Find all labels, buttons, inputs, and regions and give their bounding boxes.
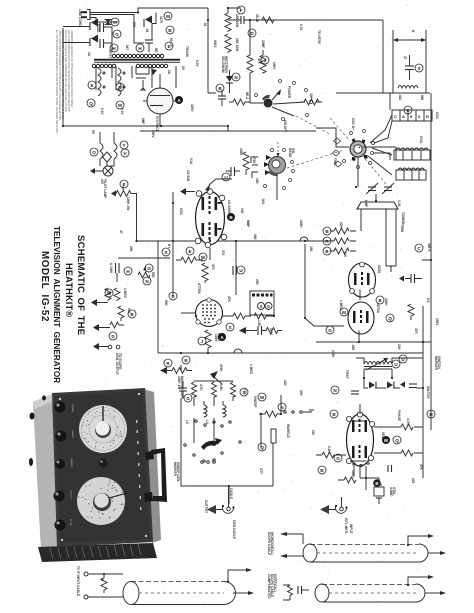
svg-text:450V: 450V — [151, 130, 155, 138]
svg-text:CABLE: CABLE — [229, 488, 233, 499]
node H — [111, 18, 119, 26]
diode D2 — [91, 35, 98, 43]
svg-text:POWER: POWER — [287, 86, 291, 99]
node G — [184, 394, 192, 402]
svg-text:G: G — [336, 456, 340, 461]
filter choke + resistor under transformer — [136, 74, 149, 78]
cap left — [351, 390, 359, 392]
svg-text:S: S — [417, 66, 420, 71]
svg-text:NE-2: NE-2 — [245, 92, 249, 99]
dark ref A by tube — [175, 96, 183, 104]
node S — [162, 248, 170, 256]
svg-text:0.5: 0.5 — [426, 298, 430, 303]
tapped coil L2 — [394, 150, 430, 160]
wires around SW3 — [316, 128, 396, 160]
capacitor C6 in box — [405, 65, 414, 67]
potentiometer P1 — [116, 191, 131, 197]
svg-text:SM-TCH: SM-TCH — [426, 386, 430, 399]
svg-text:1 MEG: 1 MEG — [249, 364, 253, 374]
svg-text:270K: 270K — [331, 350, 335, 358]
svg-text:270: 270 — [221, 250, 225, 256]
wire top right corner — [336, 20, 430, 93]
svg-text:.001: .001 — [261, 198, 265, 204]
svg-text:1500: 1500 — [239, 148, 243, 155]
node U — [399, 355, 407, 363]
svg-text:E: E — [188, 249, 191, 254]
svg-text:B+: B+ — [167, 244, 171, 248]
node H — [136, 44, 144, 52]
node B — [216, 84, 224, 92]
svg-text:20MF: 20MF — [261, 40, 265, 48]
svg-text:W: W — [201, 255, 206, 260]
svg-text:G: G — [186, 396, 190, 401]
resistors vertical x108 x117 — [105, 288, 111, 301]
bus y342 — [316, 306, 431, 342]
wire junction dots — [62, 7, 432, 487]
svg-text:GEN CABLE: GEN CABLE — [232, 520, 236, 539]
trimmer caps — [368, 186, 376, 188]
coil L1 bottom row — [398, 86, 418, 89]
svg-text:15K: 15K — [309, 246, 313, 253]
svg-text:O: O — [92, 150, 96, 155]
node D — [109, 332, 117, 340]
terminal strip box — [250, 291, 274, 315]
bus wire y353 — [158, 352, 423, 354]
svg-text:47K: 47K — [419, 464, 423, 471]
cabinet base with vents — [38, 543, 157, 562]
svg-text:E: E — [90, 83, 93, 88]
resistor R6 on B+ wire — [262, 17, 274, 23]
node G — [113, 30, 121, 38]
svg-text:6.8K: 6.8K — [219, 384, 223, 391]
svg-text:J: J — [201, 339, 204, 344]
svg-text:XTAL: XTAL — [392, 487, 396, 495]
node G — [326, 326, 334, 334]
svg-text:MARKER: MARKER — [70, 458, 73, 468]
svg-text:.01: .01 — [203, 22, 207, 27]
svg-text:VTVM FROM POINT INDICATED TO C: VTVM FROM POINT INDICATED TO CHASSIS GRO… — [58, 30, 61, 121]
svg-text:TV IF INPUT CABLE: TV IF INPUT CABLE — [76, 566, 80, 596]
phone jack J2 — [336, 506, 347, 514]
svg-text:J: J — [264, 58, 267, 63]
tuning capacitor hat — [357, 202, 398, 209]
transformer T1 secondary loops — [92, 64, 167, 67]
marker transformer — [364, 362, 392, 365]
svg-text:S: S — [260, 304, 263, 309]
svg-text:470K: 470K — [219, 364, 223, 372]
node B — [166, 26, 174, 34]
node Q — [393, 436, 401, 444]
node B — [330, 410, 338, 418]
svg-text:TUNING: TUNING — [401, 212, 405, 225]
node O — [90, 148, 98, 156]
svg-text:A: A — [402, 114, 405, 119]
svg-text:33K: 33K — [299, 390, 303, 397]
resistor R31 horizontal — [316, 452, 346, 458]
pot with arrow — [138, 272, 150, 278]
svg-text:OSC: OSC — [435, 112, 439, 120]
resistor R1 vertical — [225, 8, 231, 32]
node E — [169, 292, 177, 300]
node Y — [120, 141, 128, 149]
svg-text:SW.: SW. — [291, 148, 295, 154]
node Q — [386, 314, 394, 322]
svg-text:M: M — [342, 310, 346, 315]
resistor R21 horizontal — [254, 313, 274, 319]
svg-text:250: 250 — [129, 246, 133, 252]
node N — [232, 73, 240, 81]
node M — [340, 308, 348, 316]
rotary switch SW3 wafer — [350, 141, 366, 157]
panel right lettering dashes — [136, 420, 138, 423]
cable B scope horizontal — [280, 532, 287, 536]
svg-text:35-20: 35-20 — [255, 14, 259, 22]
resistor R22 vertical — [205, 330, 211, 352]
lower dial — [77, 477, 125, 525]
svg-text:50K: 50K — [151, 272, 155, 279]
bottom power bus — [63, 126, 316, 131]
node B — [323, 247, 331, 255]
cap C1 pair — [99, 23, 101, 32]
svg-text:.01: .01 — [145, 28, 149, 33]
svg-text:L6: L6 — [205, 420, 209, 424]
resistor R9 vertical — [202, 263, 208, 283]
node M — [164, 12, 172, 20]
svg-text:.022: .022 — [398, 94, 402, 100]
tube V1 6U8 oscillator — [196, 192, 225, 245]
instrument photo: cabinet left side face — [33, 393, 58, 551]
svg-text:TRAP: TRAP — [345, 370, 349, 380]
connector ladder box — [392, 110, 432, 121]
svg-text:OUTPUT: OUTPUT — [69, 490, 71, 500]
svg-text:10K 10W: 10K 10W — [235, 38, 239, 51]
svg-text:100K 1W: 100K 1W — [126, 197, 130, 210]
capacitor C5 — [218, 95, 226, 97]
svg-text:FUSE: FUSE — [96, 24, 100, 33]
ganged switch dashed link — [287, 150, 344, 168]
tuning drive channel — [386, 209, 396, 266]
svg-text:(HORIZONTAL): (HORIZONTAL) — [270, 532, 274, 555]
resistor R30 vertical — [408, 304, 414, 320]
svg-text:Q: Q — [260, 445, 264, 450]
svg-text:22K: 22K — [339, 222, 343, 229]
heater winding leads — [96, 66, 176, 90]
tapped coil L3 — [396, 170, 426, 180]
svg-text:TELEVISION ALIGNMENT GENERATOR: TELEVISION ALIGNMENT GENERATOR — [52, 226, 61, 383]
node N — [143, 277, 151, 285]
svg-text:ATTEN: ATTEN — [197, 283, 201, 294]
mid-left output cluster — [118, 257, 170, 259]
wires to ladders — [368, 93, 392, 175]
svg-text:TO SCOPE: TO SCOPE — [118, 353, 122, 369]
cap C3 — [145, 39, 153, 41]
svg-text:.005: .005 — [351, 344, 355, 350]
svg-text:S: S — [164, 250, 167, 255]
node W — [105, 289, 113, 297]
svg-text:6.3V: 6.3V — [299, 24, 303, 31]
node E — [165, 42, 173, 50]
svg-text:SCHEMATIC OF THE: SCHEMATIC OF THE — [75, 235, 86, 336]
box bottom wires — [181, 398, 273, 504]
svg-text:10K: 10K — [255, 178, 259, 185]
ground arrow at lamp — [90, 168, 95, 174]
node N — [331, 386, 339, 394]
rotor swoosh — [201, 441, 218, 450]
heater winding loops mid-left — [100, 132, 117, 166]
node S — [415, 64, 423, 72]
node V — [121, 149, 129, 157]
node S — [226, 323, 234, 331]
node R — [323, 237, 331, 245]
svg-text:12K: 12K — [283, 380, 287, 387]
svg-text:E: E — [167, 44, 170, 49]
resistor R7 vertical — [243, 152, 249, 175]
node B — [182, 356, 190, 364]
svg-text:8MF: 8MF — [141, 118, 145, 124]
riser wire x208 — [208, 8, 216, 93]
svg-text:1 MEG: 1 MEG — [123, 288, 127, 298]
tube V3 — [349, 263, 376, 297]
svg-text:Q: Q — [395, 438, 399, 443]
svg-text:C: C — [394, 114, 397, 119]
svg-text:6CB6: 6CB6 — [377, 265, 381, 273]
svg-text:4700: 4700 — [269, 328, 273, 335]
cable A terminals — [84, 572, 88, 576]
up-left arrow — [210, 371, 218, 379]
svg-text:.047: .047 — [125, 44, 129, 50]
svg-text:L5: L5 — [185, 420, 189, 424]
svg-text:3-30: 3-30 — [397, 200, 401, 207]
svg-text:Q: Q — [89, 101, 93, 106]
svg-text:SWEEP: SWEEP — [71, 430, 73, 438]
svg-text:EXT. MKR.: EXT. MKR. — [344, 518, 348, 534]
top dial — [79, 405, 127, 453]
svg-text:2W: 2W — [311, 430, 315, 435]
node G — [145, 264, 153, 272]
switch section wires — [194, 380, 233, 382]
tube V2 with dot grid — [196, 300, 223, 327]
rotary switch SW1 contacts — [264, 99, 273, 108]
svg-text:1/2 6AB8: 1/2 6AB8 — [227, 200, 231, 214]
cap cluster — [179, 387, 187, 389]
pilot lamp — [103, 152, 112, 166]
resistor R4 horizontal — [229, 99, 250, 105]
svg-text:15K 10W: 15K 10W — [235, 14, 239, 27]
warble resistor right — [259, 411, 281, 417]
svg-text:MODEL IG-52: MODEL IG-52 — [39, 251, 50, 322]
dimension arrows — [393, 39, 426, 41]
node E — [120, 180, 128, 188]
svg-text:F: F — [240, 8, 243, 13]
cap C2 pair — [99, 39, 101, 48]
svg-text:150V: 150V — [272, 62, 276, 70]
svg-text:OUTPUT: OUTPUT — [204, 500, 208, 513]
svg-text:50K: 50K — [164, 300, 168, 307]
marker diodes — [369, 382, 375, 389]
svg-text:S: S — [242, 390, 245, 395]
svg-text:E: E — [122, 182, 125, 187]
rectifier tube V9 5Y3 — [147, 88, 173, 114]
node N — [278, 403, 286, 411]
svg-text:SWEEP: SWEEP — [253, 396, 257, 408]
svg-text:G: G — [147, 266, 151, 271]
svg-text:HEATHKIT®: HEATHKIT® — [64, 263, 74, 317]
phone jack J1 — [223, 506, 234, 514]
svg-text:1W: 1W — [343, 252, 347, 257]
svg-text:WARBLE: WARBLE — [286, 424, 290, 438]
resistor 47 vertical — [101, 574, 107, 593]
diode D3 right — [145, 16, 152, 24]
svg-text:320V: 320V — [190, 104, 194, 112]
svg-text:47K: 47K — [211, 264, 215, 271]
node W — [199, 253, 207, 261]
svg-text:POWER: POWER — [71, 404, 73, 413]
arrow and cap row — [239, 327, 246, 334]
svg-text:TRIM: TRIM — [400, 224, 404, 232]
svg-text:1A: 1A — [87, 52, 91, 57]
node H — [110, 44, 118, 52]
svg-text:4.7K: 4.7K — [199, 384, 203, 391]
svg-text:100: 100 — [240, 208, 244, 214]
node J — [198, 337, 206, 345]
svg-text:25K: 25K — [255, 279, 259, 286]
node Q — [258, 443, 266, 451]
svg-text:OSC B+: OSC B+ — [351, 118, 355, 130]
svg-text:W: W — [107, 291, 112, 296]
instrument photo: front panel — [52, 388, 153, 547]
transformer T1 core — [94, 59, 180, 61]
node W — [258, 393, 266, 401]
svg-text:G: G — [328, 328, 332, 333]
svg-text:4.7K: 4.7K — [406, 418, 410, 425]
resistor 4.7K right of V5 — [374, 424, 423, 430]
svg-text:B: B — [375, 481, 378, 486]
svg-text:6DT6A: 6DT6A — [376, 303, 380, 314]
svg-text:Y: Y — [122, 143, 125, 148]
svg-text:Q: Q — [388, 316, 392, 321]
svg-text:.088: .088 — [420, 94, 424, 100]
coils in switch section — [204, 405, 226, 417]
svg-text:TRANS: TRANS — [185, 46, 189, 57]
diode D1 — [91, 19, 98, 27]
svg-text:1/2 6U8: 1/2 6U8 — [186, 170, 190, 181]
svg-text:ATTEN: ATTEN — [69, 519, 72, 526]
resistor R5 horizontal — [300, 99, 322, 105]
node M (waveform) — [382, 436, 390, 444]
resistor stack left — [330, 228, 356, 234]
svg-text:47K: 47K — [257, 58, 261, 65]
small knob between dials — [99, 459, 108, 468]
resistor ATC right of V5 — [374, 450, 423, 456]
transformer T1 primary loops — [112, 54, 163, 57]
svg-text:G: G — [115, 32, 119, 37]
svg-text:105V: 105V — [435, 318, 439, 326]
svg-text:MMF: MMF — [246, 220, 250, 227]
connecting wires — [358, 157, 431, 300]
resistor R2 vertical — [225, 34, 231, 53]
wires right column — [360, 342, 423, 478]
panel small labels — [69, 404, 73, 526]
panel screws — [59, 398, 61, 400]
handle — [144, 451, 154, 502]
svg-text:.A 1000: .A 1000 — [109, 262, 113, 273]
case latches left — [30, 413, 35, 420]
resistor R8 horizontal — [176, 257, 203, 263]
svg-text:LINE CORD: LINE CORD — [78, 9, 82, 27]
svg-text:100K: 100K — [214, 334, 218, 342]
node B — [323, 227, 331, 235]
cable A arrows — [228, 570, 246, 582]
node A (waveform) — [218, 333, 226, 341]
svg-text:PILOT LAMP: PILOT LAMP — [103, 179, 107, 199]
svg-text:47: 47 — [100, 578, 104, 582]
svg-text:ALL OTHERS 1/2W 20% RESISTORS: ALL OTHERS 1/2W 20% RESISTORS UNLESS OTH… — [55, 30, 58, 135]
arrow at CT — [151, 69, 157, 75]
node E — [186, 247, 194, 255]
right vertical bus — [430, 93, 432, 430]
gen output terminals — [93, 324, 99, 331]
wire V2 grid stub — [181, 312, 195, 314]
svg-text:RESISTANCE DECIMALS OF OHMS AN: RESISTANCE DECIMALS OF OHMS AND GREATER … — [70, 30, 73, 108]
node B — [318, 466, 326, 474]
resistor 47K top right — [386, 465, 388, 467]
svg-text:300 V.: 300 V. — [427, 243, 431, 252]
svg-text:2A: 2A — [167, 70, 171, 75]
svg-text:600V: 600V — [213, 40, 217, 48]
svg-text:6.3V: 6.3V — [195, 60, 199, 67]
svg-text:ATT: ATT — [259, 468, 263, 474]
svg-text:SW: SW — [132, 22, 136, 27]
node U — [222, 173, 230, 181]
node B — [376, 296, 384, 304]
arrow up-left near tube top — [205, 184, 210, 191]
svg-text:TO HTRS: TO HTRS — [317, 30, 321, 44]
cap and ground right — [410, 274, 412, 283]
svg-text:47: 47 — [119, 230, 123, 234]
svg-text:(VERTICAL): (VERTICAL) — [273, 574, 277, 592]
svg-text:SWEEP GEN: SWEEP GEN — [176, 462, 180, 482]
capacitor C9 — [232, 266, 234, 275]
svg-text:W: W — [260, 395, 265, 400]
capacitor C4 — [240, 16, 242, 24]
node R — [164, 359, 172, 367]
instrument photo: right side strip — [143, 389, 161, 543]
interlock wires right loop — [90, 15, 144, 44]
svg-text:M: M — [384, 438, 388, 443]
dashed gang lines — [330, 118, 350, 141]
resistor R12 vertical — [118, 306, 124, 321]
svg-text:V1A: V1A — [189, 158, 193, 165]
wire plug bottom down to diodes — [90, 18, 96, 23]
resistor R20 horizontal — [222, 313, 251, 319]
svg-text:100K: 100K — [351, 470, 355, 478]
node F — [237, 6, 245, 14]
svg-text:G: G — [267, 304, 270, 309]
node U — [392, 360, 400, 368]
node B — [128, 310, 136, 318]
svg-text:47: 47 — [403, 56, 407, 60]
svg-text:100K: 100K — [384, 298, 388, 306]
svg-text:68K: 68K — [253, 234, 257, 241]
svg-text:6.3V: 6.3V — [120, 108, 124, 115]
svg-text:220: 220 — [411, 478, 415, 484]
svg-text:E: E — [171, 294, 174, 299]
selenium rectifier D4 — [226, 76, 233, 82]
svg-text:MMF: MMF — [364, 200, 368, 207]
svg-text:M: M — [166, 14, 170, 19]
node H — [427, 410, 435, 418]
node B (waveform) — [227, 213, 235, 221]
